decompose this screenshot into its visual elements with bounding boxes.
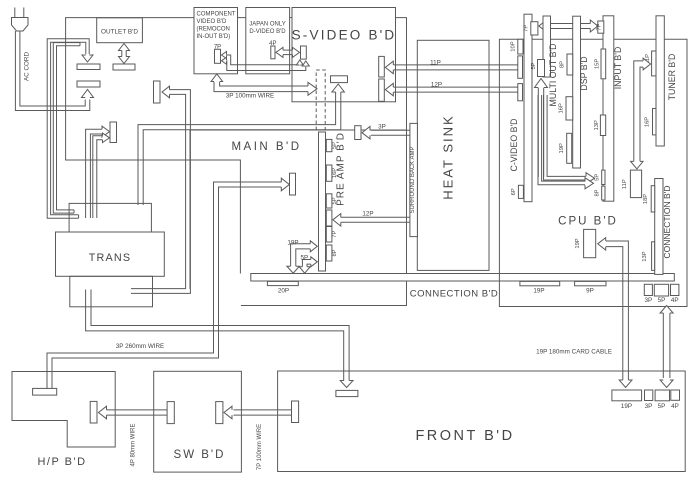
dsp strip xyxy=(573,16,581,168)
cvideo 7P bar xyxy=(531,22,538,35)
right main box xyxy=(499,39,687,306)
hook arrow trans-top to barL outer xyxy=(86,129,102,218)
trans lower box xyxy=(70,276,153,307)
svg-text:5P: 5P xyxy=(332,197,338,204)
svg-text:IN-OUT B'D): IN-OUT B'D) xyxy=(197,34,231,40)
wire 3P260 main to HP xyxy=(52,187,282,388)
svg-text:20P: 20P xyxy=(278,288,289,295)
svg-text:5P: 5P xyxy=(300,254,308,261)
dsp 16P bar xyxy=(566,97,573,120)
svg-text:JAPAN ONLY: JAPAN ONLY xyxy=(249,22,285,28)
connection bus bar xyxy=(251,274,675,282)
svg-text:3P: 3P xyxy=(378,123,386,130)
svg-text:5P: 5P xyxy=(658,297,666,304)
svideo left connector xyxy=(301,46,307,59)
arrow up into component xyxy=(211,74,223,82)
arrowhead into 7P a xyxy=(222,52,227,59)
svideo 12P bar xyxy=(379,79,385,101)
svg-text:19P: 19P xyxy=(621,403,632,410)
outlet board xyxy=(97,18,143,43)
svg-text:MAIN B'D: MAIN B'D xyxy=(231,141,301,153)
preamp 8P bar xyxy=(326,245,332,261)
svg-text:10P: 10P xyxy=(510,41,516,51)
svg-text:8P: 8P xyxy=(595,189,601,196)
19P bracket xyxy=(520,281,560,285)
svg-text:VIDEO B'D: VIDEO B'D xyxy=(197,19,227,25)
power bar1 xyxy=(77,64,100,70)
transformer TRANS box xyxy=(56,232,165,276)
hook arrow trans-top to barL inner xyxy=(93,136,103,218)
svg-text:5P: 5P xyxy=(658,403,666,410)
svg-text:13P: 13P xyxy=(642,251,648,261)
connector 7P comp xyxy=(215,49,221,63)
3P 100mm wire arrow xyxy=(220,82,308,86)
hook arrow to tuner 11P and down to 11P rect xyxy=(640,67,643,161)
arrow up into svideo bar xyxy=(332,84,345,92)
front w1 bar xyxy=(336,390,358,396)
double arrow card cable xyxy=(669,313,671,378)
cvideo 11P bar xyxy=(518,56,523,78)
svg-text:7P 100mm WIRE: 7P 100mm WIRE xyxy=(257,424,263,470)
svg-text:16P: 16P xyxy=(645,117,651,127)
preamp 12P bar xyxy=(326,210,332,226)
svg-text:3P: 3P xyxy=(645,403,653,410)
arrow into cpu 19P and down to front xyxy=(606,241,628,380)
front 4P connector xyxy=(671,390,680,400)
4P wire arrow to hp xyxy=(107,414,168,416)
input 8P bar xyxy=(602,186,605,200)
dsp 19P bar xyxy=(567,133,572,163)
cvideo 6P bar xyxy=(518,185,523,198)
connector 4P japan xyxy=(271,46,275,59)
front 3P connector xyxy=(645,390,653,401)
front 5P connector xyxy=(655,390,669,401)
AC cord xyxy=(20,31,85,106)
svg-text:5P: 5P xyxy=(332,142,338,149)
outlet double arrow xyxy=(125,51,127,58)
main 19P connector bar xyxy=(290,173,296,195)
svg-text:FRONT B'D: FRONT B'D xyxy=(415,428,514,444)
svg-text:19P: 19P xyxy=(533,288,544,295)
9P bracket xyxy=(575,281,606,285)
AC plug xyxy=(14,8,16,18)
3P arrow surround xyxy=(371,134,410,136)
connector barM xyxy=(154,81,161,103)
trans top box xyxy=(69,203,151,235)
wire 7P to svideo 2 xyxy=(225,61,306,71)
svg-text:9P: 9P xyxy=(586,288,594,295)
svg-text:12P: 12P xyxy=(431,81,442,88)
svg-text:DSP B'D: DSP B'D xyxy=(579,56,589,90)
conn 18P bar xyxy=(651,186,655,212)
connector barL xyxy=(110,122,117,143)
7P wire arrow to sw xyxy=(234,414,292,416)
svg-text:19P 180mm CARD CABLE: 19P 180mm CARD CABLE xyxy=(536,349,612,356)
dsp 8P bar xyxy=(567,54,573,75)
japan dvideo board xyxy=(246,8,290,74)
svg-text:TUNER B'D: TUNER B'D xyxy=(667,54,677,101)
wire remocon top xyxy=(66,18,241,274)
sw right bar xyxy=(216,402,223,424)
sw board xyxy=(154,371,242,472)
11P rect connector xyxy=(630,170,641,198)
preamp 5P2 bar xyxy=(326,194,332,208)
5P arrow to preamp and bar xyxy=(307,264,311,267)
power bar2 xyxy=(77,81,100,87)
svg-text:AC CORD: AC CORD xyxy=(24,52,31,81)
svg-text:16P: 16P xyxy=(559,103,565,113)
svg-text:4P: 4P xyxy=(671,403,679,410)
svg-text:16P: 16P xyxy=(332,168,338,178)
svg-text:3P 100mm WIRE: 3P 100mm WIRE xyxy=(226,93,275,100)
front left bar xyxy=(292,401,299,423)
hp right bar xyxy=(90,401,97,423)
cvideo 12P bar xyxy=(518,84,523,101)
19P arrow to preamp and bar xyxy=(296,249,311,266)
cvideo 10P bar xyxy=(518,39,523,54)
link japan-svideo xyxy=(290,17,293,19)
main board outline xyxy=(190,130,407,306)
svg-text:CPU B'D: CPU B'D xyxy=(558,216,618,228)
7P-7P double arrow xyxy=(546,23,591,25)
wire svideo right down xyxy=(396,18,407,306)
svg-text:COMPONENT: COMPONENT xyxy=(197,12,236,18)
4P double arrow xyxy=(283,49,293,51)
AC cord arrow xyxy=(82,90,94,98)
multiout strip xyxy=(543,16,551,77)
wire trans-primary inner loop xyxy=(57,46,81,210)
component video board xyxy=(194,8,238,74)
outlet bar xyxy=(113,64,135,70)
svg-text:19P: 19P xyxy=(287,240,298,247)
sw left bar xyxy=(167,402,174,424)
arrow into front-19P-bar xyxy=(340,381,353,388)
svg-text:7P: 7P xyxy=(524,25,530,32)
front 19P rect xyxy=(612,390,642,401)
arrowhead into 7P b xyxy=(222,57,227,64)
input strip xyxy=(603,16,614,201)
svg-text:SURROUND BACK AMP: SURROUND BACK AMP xyxy=(410,146,416,213)
svg-text:11P: 11P xyxy=(622,179,628,189)
conn 13P bar xyxy=(652,242,655,271)
svideo top bar xyxy=(331,76,348,83)
bent arrow to input 5P xyxy=(547,95,586,176)
11P arrow xyxy=(393,69,518,71)
arrow into main 19P connector xyxy=(281,178,289,191)
svg-text:15P: 15P xyxy=(594,59,600,69)
cvideo strip xyxy=(524,14,532,202)
svg-text:5P: 5P xyxy=(531,62,537,69)
wire into trans top left xyxy=(138,92,336,205)
preamp 16P bar xyxy=(326,165,332,181)
input 13P bar xyxy=(600,115,605,136)
12P arrow xyxy=(393,91,518,93)
svg-text:19P: 19P xyxy=(559,143,565,153)
multiout 5P bar xyxy=(538,60,545,77)
top 3P connector xyxy=(644,284,652,295)
heat sink box xyxy=(417,40,489,270)
preamp 5P bar xyxy=(326,139,332,151)
arrow into power bar1 xyxy=(82,55,93,62)
svideo board xyxy=(292,8,396,102)
hp connector bar xyxy=(33,388,57,395)
svg-text:8P: 8P xyxy=(559,61,565,68)
dashed hidden strip xyxy=(316,70,325,130)
connection strip right xyxy=(655,179,663,275)
svg-text:SW B'D: SW B'D xyxy=(174,449,226,461)
svg-text:8P: 8P xyxy=(332,249,338,256)
link comp-japan xyxy=(238,17,246,19)
top 5P connector xyxy=(654,284,668,296)
svg-text:(REMOCON: (REMOCON xyxy=(197,27,230,33)
svg-text:4P 80mm WIRE: 4P 80mm WIRE xyxy=(131,424,137,467)
hp board xyxy=(12,372,115,448)
cpu 19P rect xyxy=(584,229,596,257)
input 15P bar xyxy=(601,49,606,79)
20P bracket xyxy=(267,281,298,285)
arrow up to multiout 5P xyxy=(537,88,539,177)
svg-text:3P: 3P xyxy=(644,297,652,304)
svg-text:3P 260mm WIRE: 3P 260mm WIRE xyxy=(116,343,165,350)
input 5P bar xyxy=(602,170,605,184)
svg-text:7P: 7P xyxy=(597,23,603,30)
svg-text:S-VIDEO B'D: S-VIDEO B'D xyxy=(292,28,397,43)
top 4P connector xyxy=(671,284,679,295)
svg-text:C-VIDEO B'D: C-VIDEO B'D xyxy=(509,118,519,171)
svg-text:INPUT B'D: INPUT B'D xyxy=(613,47,623,90)
svg-text:HEAT SINK: HEAT SINK xyxy=(441,114,456,199)
front board xyxy=(278,371,686,472)
12P arrow surround xyxy=(340,221,410,223)
hook arrow trans-lower to barM xyxy=(131,94,186,288)
svg-text:5P: 5P xyxy=(595,174,601,181)
svg-text:H/P B'D: H/P B'D xyxy=(37,456,86,468)
svg-text:11P: 11P xyxy=(430,59,441,66)
surround back amp strip xyxy=(410,123,418,236)
wire trans-primary outer loop xyxy=(51,42,86,215)
tuner 16P bar xyxy=(653,109,657,135)
svg-text:CONNECTION B'D: CONNECTION B'D xyxy=(410,289,499,300)
bent arrow to input 8P xyxy=(542,95,585,181)
preamp strip xyxy=(319,132,326,271)
svg-text:CONNECTION B'D: CONNECTION B'D xyxy=(662,186,672,259)
svg-text:18P: 18P xyxy=(643,194,649,204)
wire trans to front bar xyxy=(91,290,349,381)
preamp 7P bar xyxy=(326,227,332,243)
3P connector bar xyxy=(355,126,361,140)
svg-text:12P: 12P xyxy=(362,210,373,217)
svg-text:D-VIDEO B'D: D-VIDEO B'D xyxy=(249,29,286,35)
wire 7P to svideo 1 xyxy=(225,55,300,65)
tuner strip xyxy=(656,16,664,146)
svg-text:OUTLET B'D: OUTLET B'D xyxy=(101,29,138,36)
svg-text:TRANS: TRANS xyxy=(89,252,132,264)
tuner 11P bar xyxy=(652,51,656,76)
svg-text:MULTI OUT B'D: MULTI OUT B'D xyxy=(548,44,558,107)
svg-text:19P: 19P xyxy=(575,238,581,248)
svg-text:7P: 7P xyxy=(332,231,338,238)
svideo 11P bar xyxy=(379,56,385,77)
svg-text:13P: 13P xyxy=(594,120,600,130)
svg-text:6P: 6P xyxy=(511,188,517,195)
svg-text:4P: 4P xyxy=(671,297,679,304)
input 7P bar xyxy=(598,21,604,33)
